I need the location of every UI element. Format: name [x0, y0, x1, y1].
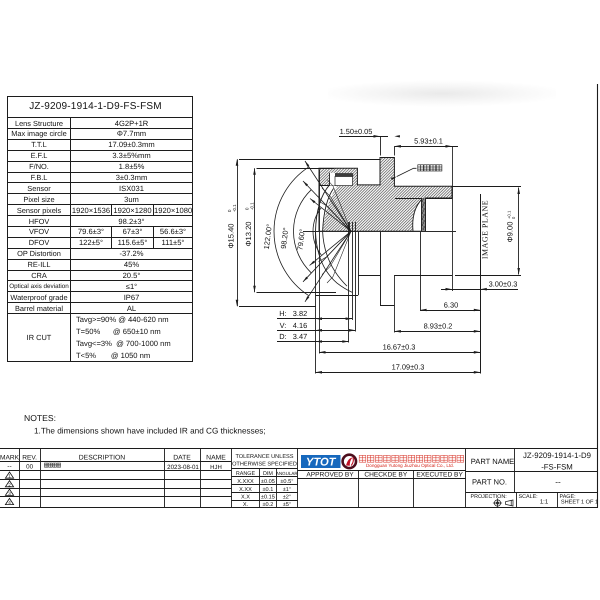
svg-text:122.00°: 122.00°: [262, 223, 274, 250]
svg-text:8.93±0.2: 8.93±0.2: [424, 322, 453, 331]
svg-text:ANGULAR: ANGULAR: [276, 471, 299, 476]
svg-text:3.47: 3.47: [293, 332, 307, 341]
svg-text:1: 1: [8, 474, 11, 479]
svg-text:-0.1: -0.1: [250, 202, 255, 210]
svg-text:1:1: 1:1: [540, 499, 549, 506]
svg-text:EXECUTED BY: EXECUTED BY: [416, 472, 463, 479]
svg-text:H:: H:: [279, 309, 286, 318]
svg-text:±0.5°: ±0.5°: [280, 479, 293, 485]
svg-text:Dongguan Yutong Jiuzhou Optica: Dongguan Yutong Jiuzhou Optical Co., Ltd…: [366, 463, 454, 468]
svg-text:±0.1: ±0.1: [262, 487, 273, 493]
svg-text:6.30: 6.30: [444, 300, 458, 309]
svg-text:DIM: DIM: [263, 471, 273, 477]
svg-text:IMAGE PLANE: IMAGE PLANE: [480, 200, 489, 259]
svg-text:±0.05: ±0.05: [261, 479, 275, 485]
svg-text:4.16: 4.16: [293, 321, 307, 330]
svg-text:--: --: [7, 463, 11, 470]
svg-text:PROJECTION:: PROJECTION:: [471, 494, 507, 500]
svg-text:±2°: ±2°: [283, 495, 291, 501]
svg-text:NAME: NAME: [206, 454, 226, 461]
svg-text:NOTES:: NOTES:: [24, 413, 56, 423]
svg-text:±5°: ±5°: [283, 502, 291, 508]
svg-text:Φ9.00: Φ9.00: [506, 222, 515, 243]
svg-text:98.20°: 98.20°: [279, 227, 291, 249]
svg-text:1.The dimensions shown have in: 1.The dimensions shown have included IR …: [34, 427, 266, 436]
svg-text:3.82: 3.82: [293, 309, 307, 318]
svg-text:5.93±0.1: 5.93±0.1: [414, 137, 443, 146]
svg-text:00: 00: [26, 463, 33, 470]
svg-text:-FS-FSM: -FS-FSM: [541, 463, 573, 472]
svg-text:JZ-9209-1914-1-D9: JZ-9209-1914-1-D9: [523, 451, 591, 460]
svg-text:2023-08-01: 2023-08-01: [167, 464, 199, 471]
svg-text:--: --: [555, 478, 561, 487]
svg-text:3: 3: [8, 491, 11, 496]
svg-text:±0.15: ±0.15: [261, 495, 275, 501]
svg-text:-0.1: -0.1: [232, 204, 237, 212]
svg-text:RANGE: RANGE: [236, 471, 256, 477]
svg-text:DATE: DATE: [173, 454, 191, 461]
svg-text:X.XXX: X.XXX: [237, 479, 254, 485]
svg-text:16.67±0.3: 16.67±0.3: [383, 343, 416, 352]
svg-text:MARK: MARK: [0, 454, 20, 461]
svg-text:DESCRIPTION: DESCRIPTION: [79, 454, 126, 461]
svg-text:±0.2: ±0.2: [262, 502, 273, 508]
svg-text:SCALE:: SCALE:: [519, 494, 538, 500]
svg-text:TOLERANCE UNLESS: TOLERANCE UNLESS: [235, 454, 293, 460]
svg-text:±1°: ±1°: [283, 487, 291, 493]
svg-text:79.60°: 79.60°: [295, 228, 307, 250]
svg-text:X.X: X.X: [241, 495, 250, 501]
svg-text:V:: V:: [280, 321, 287, 330]
svg-text:2: 2: [8, 482, 11, 487]
svg-text:17.09±0.3: 17.09±0.3: [392, 363, 425, 372]
svg-text:PART NO.: PART NO.: [472, 478, 507, 487]
svg-text:4: 4: [8, 500, 11, 505]
svg-text:0: 0: [511, 216, 516, 219]
svg-text:1.50±0.05: 1.50±0.05: [340, 127, 373, 136]
svg-text:CHECKDE BY: CHECKDE BY: [364, 472, 407, 479]
svg-text:APPROVED BY: APPROVED BY: [306, 472, 354, 479]
svg-text:PART NAME: PART NAME: [471, 457, 514, 466]
svg-text:SHEET 1 OF 1: SHEET 1 OF 1: [561, 500, 598, 506]
svg-text:D:: D:: [279, 332, 286, 341]
svg-text:HJH: HJH: [210, 464, 222, 471]
svg-text:3.00±0.3: 3.00±0.3: [489, 280, 518, 289]
svg-text:X.XX: X.XX: [239, 487, 252, 493]
svg-text:REV.: REV.: [22, 454, 37, 461]
svg-text:Φ13.20: Φ13.20: [244, 221, 253, 246]
svg-text:Φ15.40: Φ15.40: [226, 223, 235, 248]
svg-text:X.: X.: [243, 502, 249, 508]
svg-text:YTOT: YTOT: [306, 456, 337, 468]
svg-text:OTHERWISE SPECIFIED: OTHERWISE SPECIFIED: [232, 461, 297, 467]
